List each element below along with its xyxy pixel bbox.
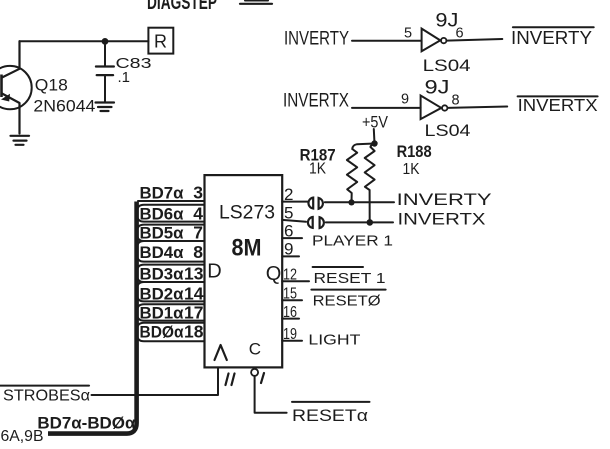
svg-text:2N6044: 2N6044 [33,96,95,115]
wire pin 15 [282,299,302,301]
svg-text:INVERTX: INVERTX [283,91,349,112]
svg-text:5: 5 [404,26,412,42]
pin 11 marks [226,374,235,386]
node dot R187/INVERTY [348,199,354,205]
clock symbol [215,345,227,360]
svg-text:PLAYER 1: PLAYER 1 [312,234,393,250]
svg-text:R188: R188 [397,143,432,161]
wire INVERTY to inverter [352,40,421,42]
svg-text:8M: 8M [232,235,262,262]
wire pin 5 [282,220,306,222]
node bubble BD5a [137,225,204,241]
connector pair (pin5) [308,217,324,228]
svg-text:C: C [249,340,261,359]
wire pin 2 [282,201,307,203]
pin 1 mark [261,373,264,383]
svg-text:BD1α: BD1α [140,305,184,323]
clear bubble [251,369,258,376]
svg-text:8: 8 [452,92,460,108]
svg-text:BD4α: BD4α [140,244,184,262]
connector box R [148,28,173,54]
op-amp U1 inverter 9J LS04 [422,29,447,52]
transistor base bar [0,75,3,98]
ground (emitter) [11,136,30,145]
svg-text:BD3α: BD3α [140,266,184,284]
svg-text:LS273: LS273 [219,203,275,224]
svg-text:BD2α: BD2α [140,286,184,304]
wire clear pin to RESETa [255,376,287,413]
wire to INVERTY [325,201,394,203]
wire collector to node [20,40,106,42]
node +5V junction dot [371,140,377,146]
wire stub right of DIAGSTEP [240,3,272,5]
svg-text:13: 13 [184,264,204,284]
svg-text:RESETØ: RESETØ [313,294,381,310]
wire INVERTX to inverter [352,107,421,109]
node dot R188/INVERTX [367,219,374,226]
net label RESET1-bar [313,267,386,287]
svg-text:14: 14 [184,284,204,304]
node bubble BD0a [137,323,204,341]
wire BD7 row [138,200,205,202]
svg-text:LS04: LS04 [423,56,471,75]
node bubble BD1a [137,304,204,320]
wire to INVERTX [326,221,393,223]
svg-text:RESETα: RESETα [292,407,369,425]
svg-text:DIAGSTEP: DIAGSTEP [147,0,217,14]
svg-text:LS04: LS04 [425,121,471,140]
net label RESETa-bar [292,402,370,425]
svg-text:3: 3 [193,183,203,203]
wire pin 19 [282,340,302,342]
transistor collector lead [2,41,20,77]
svg-text:BD5α: BD5α [140,225,184,243]
svg-text:D: D [207,261,221,283]
wire pin 9 [282,255,299,257]
svg-text:INVERTX: INVERTX [518,95,598,115]
transistor emitter lead [2,94,20,134]
wire inverter output [448,107,508,108]
svg-text:6A,9B: 6A,9B [1,428,44,445]
svg-text:7: 7 [193,223,203,243]
op-amp U2 inverter 9J LS04 [421,96,448,120]
svg-text:INVERTX: INVERTX [398,210,486,229]
transistor Q2 body [0,66,32,109]
svg-text:INVERTY: INVERTY [511,27,592,48]
resistor R188 [365,144,375,223]
bus BD7a-BD0a thick line [48,202,137,434]
svg-text:17: 17 [184,303,203,323]
node bubble BD2a [137,282,204,301]
svg-text:Q: Q [266,263,282,285]
node bubble BD3a [137,265,204,282]
wire pin 12 [282,280,309,282]
wire node to R box [105,40,148,42]
svg-text:BD6α: BD6α [140,206,184,224]
svg-text:STROBESα: STROBESα [3,388,90,405]
svg-text:1K: 1K [403,161,420,178]
capacitor C83 [96,45,114,103]
wire inverter output [447,39,503,41]
connector pair (pin2) [308,198,322,209]
node bubble BD4a [137,241,204,262]
ground (capacitor) [96,103,115,112]
net label STROBESa-bar [0,386,90,405]
svg-text:.1: .1 [118,69,131,86]
wire STROBES to clock pin [92,367,219,395]
svg-text:INVERTY: INVERTY [284,29,349,50]
svg-text:1K: 1K [309,161,326,178]
node junction dot [102,38,109,45]
svg-text:18: 18 [184,322,204,342]
wire pin 16 [282,318,299,320]
svg-text:BD7α: BD7α [140,185,184,203]
svg-text:6: 6 [456,26,464,42]
svg-text:8: 8 [193,242,203,262]
svg-text:BDØα: BDØα [140,324,184,342]
svg-text:INVERTY: INVERTY [397,190,492,209]
svg-text:Q18: Q18 [35,76,68,95]
svg-text:9J: 9J [425,78,450,99]
svg-text:R: R [154,32,167,52]
node bubble BD6a [137,205,204,222]
svg-text:RESET 1: RESET 1 [314,271,386,287]
net label INVERTY-bar (output) [511,27,594,48]
IC U3 LS273 8M body [205,175,283,367]
resistor R187 [347,144,375,203]
svg-text:LIGHT: LIGHT [308,333,360,349]
net label INVERTX-bar (output) [518,95,598,115]
svg-text:9: 9 [401,91,409,107]
wire pin 6 [282,237,302,239]
svg-text:4: 4 [193,204,203,224]
svg-text:BD7α-BDØα: BD7α-BDØα [37,415,135,433]
wire +5V to node [373,129,376,143]
svg-text:+5V: +5V [362,113,389,132]
net label RESET0-bar [311,290,385,310]
transistor emitter arrow [1,94,10,102]
